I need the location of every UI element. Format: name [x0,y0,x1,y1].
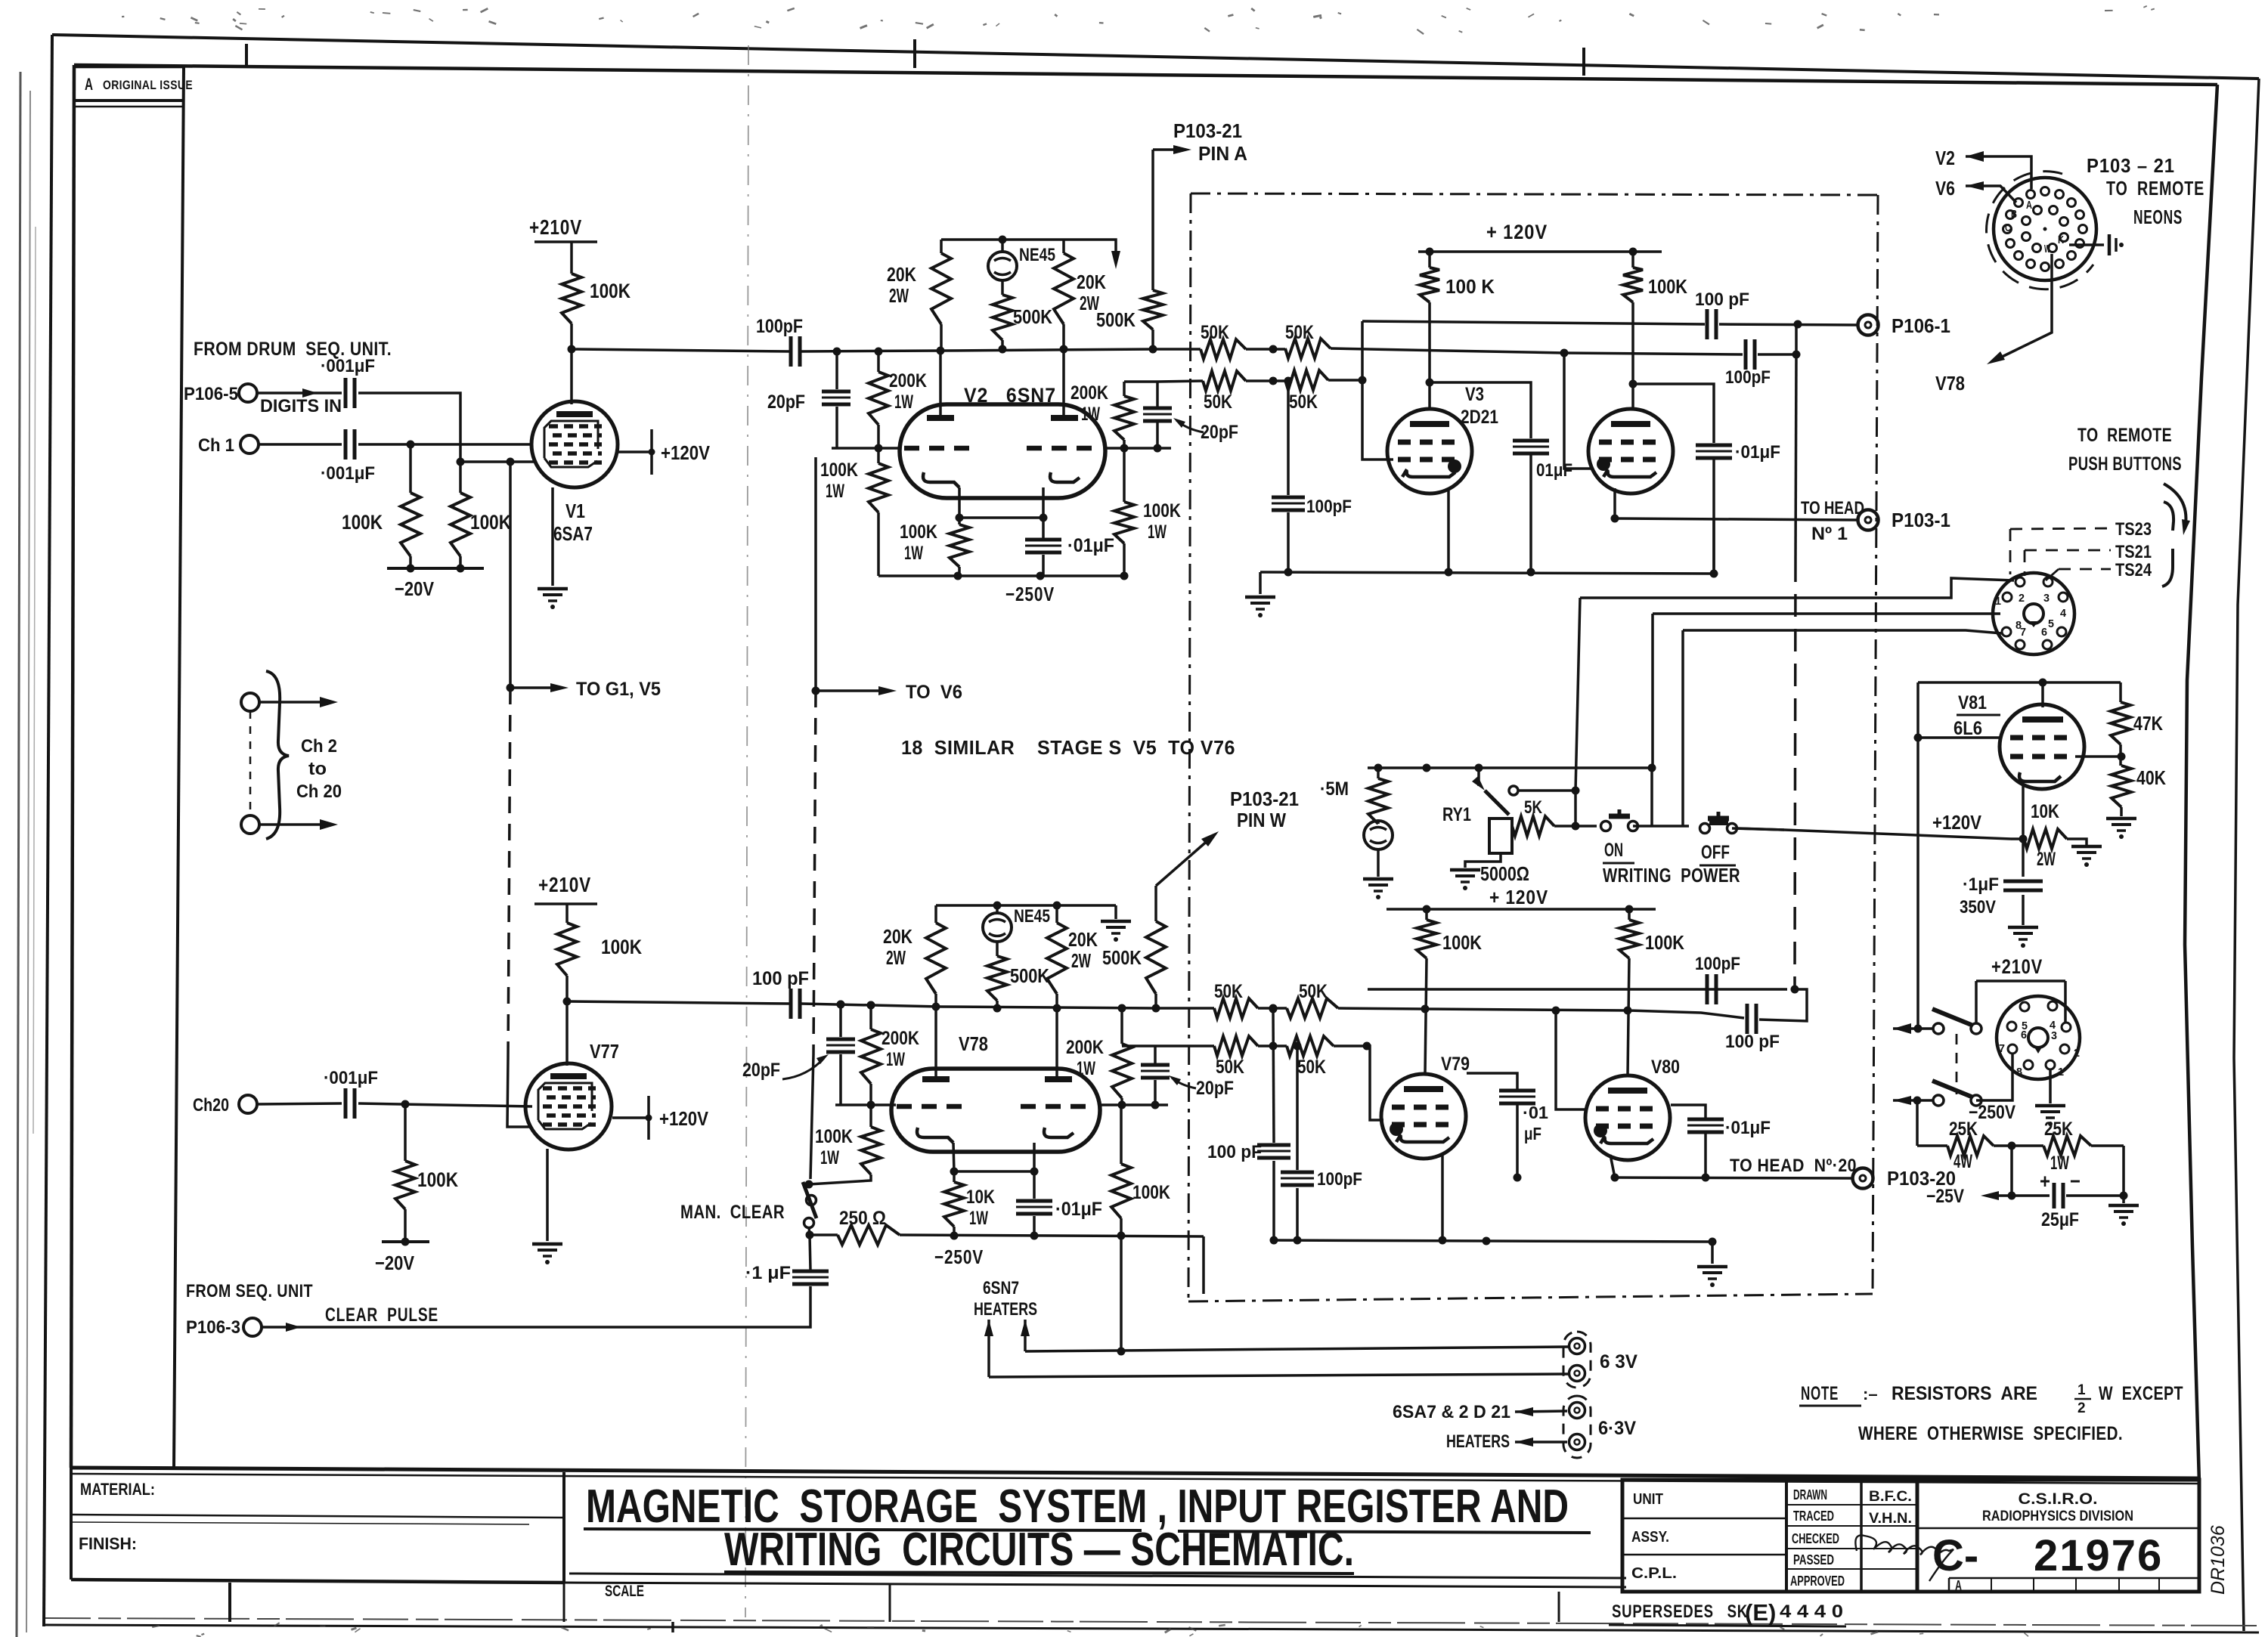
junction Ch1/R100K [407,441,415,449]
neon NE45 (V2) [999,236,1007,244]
svg-text:100K: 100K [470,511,511,534]
capacitor .001uF (Ch 1) [344,429,348,460]
svg-text:·01μF: ·01μF [1067,535,1114,556]
brace TS labels [2162,502,2173,586]
inner frame right [2185,85,2217,1483]
tube V78 6SN7 [891,1069,1100,1152]
terminal tick +120V (V1) [650,429,653,475]
tick bottom center [671,1622,674,1632]
capacitor 100pF (V79 grid a) [1269,1005,1278,1013]
svg-text:A: A [2026,199,2032,212]
wire V2 right plate [1062,349,1065,416]
svg-text:1W: 1W [1077,1058,1095,1079]
wire cap to ground rail R [1712,460,1715,572]
resistor .5M [1377,768,1380,778]
svg-text:6: 6 [2041,626,2047,639]
ground (10K) [2071,845,2102,849]
wire TS pin2 from relay contact [1580,578,2014,598]
svg-text:(E): (E) [1745,1599,1776,1626]
wire long branch down (dashed) [1795,559,1795,979]
svg-text:SCALE: SCALE [605,1583,644,1600]
ground (40K) [2120,807,2123,816]
resistor 50K lower row2 a [1214,1036,1258,1056]
V78 grid wire [835,1103,896,1106]
arrow 20pF label (V78 right) [1172,1078,1196,1088]
bus wire dashed (18 similar stages) [508,688,510,1058]
wire 10K to ground [2067,839,2087,845]
svg-text:W EXCEPT: W EXCEPT [2099,1383,2183,1404]
capacitor 20pF (V78 right) [1141,1063,1170,1067]
wire man clear to clear pulse [262,1286,810,1327]
resistor 500K (PIN W line) [1146,921,1166,994]
wire 25K1W right drop [2122,1146,2125,1196]
heater terminals 6.3V pair 1 [1569,1338,1585,1354]
V78 anode bars [922,1076,950,1082]
terminal P106-1 [1858,315,1879,336]
tube V79 2D21 [1381,1074,1466,1159]
wire -250V rail drop [1202,1236,1205,1294]
heater arrow 1 [984,1320,993,1336]
svg-text:6L6: 6L6 [1954,718,1982,739]
svg-text:TO G1, V5: TO G1, V5 [576,679,661,700]
wire NE45 rail to down-arrow [1064,240,1116,257]
svg-text:1W: 1W [894,391,913,413]
terminal tick +120V (V77) [647,1096,650,1140]
wire V3 cathode [1447,488,1450,572]
wire row2 lower left end [1122,1044,1155,1047]
dashed wire TS23 [2010,528,2111,529]
tube V80 2D21 [1585,1075,1670,1160]
tube V77 6SA7 [525,1063,612,1150]
wire digits-in cap to grid2 node [358,393,460,462]
svg-text:·01μF: ·01μF [1735,442,1780,463]
V78 internal grid dashes [897,1104,968,1109]
svg-text:V1: V1 [565,500,585,522]
svg-text:500K: 500K [1102,946,1142,969]
wire V80 plate [1628,958,1629,1075]
junction grid2/R100K [457,458,465,466]
svg-text:100K: 100K [1143,500,1181,521]
junction TO V6 [812,687,820,695]
wire rail to pin3 [2064,981,2067,1022]
resistor 20K 2W (left) [940,240,943,253]
svg-text:RESISTORS ARE: RESISTORS ARE [1892,1383,2037,1404]
arrowhead digits in [302,388,318,398]
svg-text:DIGITS IN: DIGITS IN [260,396,342,416]
svg-text:CLEAR PULSE: CLEAR PULSE [325,1304,438,1326]
junction V3b 100K [1629,248,1637,256]
capacitor .001uF (Ch20) [344,1088,348,1119]
wire row2 [1157,381,1203,382]
svg-text:25μF: 25μF [2041,1209,2079,1230]
svg-text:P103-21: P103-21 [1230,788,1299,810]
svg-text:TRACED: TRACED [1793,1509,1834,1524]
svg-text:P106-3: P106-3 [186,1317,240,1338]
arrow 20pF label (V78) [782,1058,824,1079]
svg-text:TS24: TS24 [2115,560,2152,580]
unit table frame [1622,1480,1917,1592]
resistor 40K [2112,766,2131,807]
svg-text:2: 2 [2019,592,2025,605]
svg-text:APPROVED: APPROVED [1790,1574,1845,1589]
wire pin7 to -250V switch [1981,1054,2012,1100]
svg-text:PIN A: PIN A [1198,142,1247,165]
wire V1 cathode to ground [551,487,554,586]
svg-text:OFF: OFF [1701,842,1730,863]
svg-text:4 4 4 0: 4 4 4 0 [1780,1601,1843,1622]
svg-text:·1μF: ·1μF [1963,874,1999,895]
svg-text:18 SIMILAR STAGE S V5 TO: 18 SIMILAR STAGE S V5 TO V76 [901,736,1235,759]
bus dashed V2 to V78 (left) [814,457,817,691]
bus wire solid to V77 grid [507,1058,532,1127]
svg-text:20pF: 20pF [1196,1078,1234,1099]
svg-text:2W: 2W [2037,849,2056,870]
resistor 100pF branch (V3 grid) [1284,377,1293,385]
rail -250V (V2) [958,574,1124,577]
svg-text:ASSY.: ASSY. [1631,1529,1669,1546]
relay contact arm [1477,768,1480,786]
capacitor 100pF (output 2) [1744,339,1748,370]
wire 20K left bottom [934,994,937,1007]
svg-text:100K: 100K [342,511,383,534]
svg-text:V78: V78 [959,1032,988,1055]
svg-text:RADIOPHYSICS DIVISION: RADIOPHYSICS DIVISION [1982,1509,2133,1524]
wire V81 plate [2041,682,2044,707]
svg-text:500K: 500K [1013,305,1052,328]
svg-text:NE45: NE45 [1019,245,1055,265]
capacitor 100pF (lower out 1) [1746,1004,1749,1034]
wire V79 plate [1425,958,1427,1074]
node -20V bar [409,556,412,568]
ground cap at socket [2069,243,2104,246]
svg-text:100 pF: 100 pF [1695,289,1749,310]
material box [70,1468,73,1580]
wire V3 plate cross to cap [1430,382,1531,438]
wire Ch20 to cap [257,1103,342,1104]
resistor 20K 2W (V78 left) [934,905,937,923]
arrow to P103-21 PIN A [1153,148,1181,151]
wire lower cap1 junction [1759,989,1807,1021]
wire V2 left plate [939,351,942,416]
supersedes strip [1558,1592,1560,1622]
capacitor .01uF (V78 cathode) [1033,1171,1036,1199]
ground (NE45 rail) [1114,905,1117,919]
resistor 200K 1W (V78 right) [1120,1008,1123,1044]
capacitor 100pF (V77-V78) [789,989,793,1019]
svg-text:3: 3 [2043,592,2050,605]
title underline 1b [1178,1531,1591,1533]
ground (relay coil) [1450,868,1480,872]
tube V2 6SN7 [900,404,1105,498]
wire V1 plate to +120V [618,450,652,453]
wire V78 right plate [1055,1008,1058,1076]
arrow Ch2 [259,701,327,704]
svg-text:−250V: −250V [1005,583,1055,605]
svg-text:7: 7 [1999,1042,2005,1055]
switch MAN CLEAR [805,1181,813,1189]
arrow 6SA7 heaters [1515,1407,1533,1416]
svg-text:100K: 100K [820,460,858,481]
wire pin1 to ground [2049,1069,2052,1103]
resistor 100K (V78 right lower) [1120,1105,1123,1164]
svg-text:+210V: +210V [538,873,591,896]
svg-text:B: B [2011,208,2017,221]
svg-text:·001μF: ·001μF [321,356,375,376]
svg-text:2D21: 2D21 [1461,407,1498,428]
wire TS pin1 from rail [1653,612,2000,615]
resistor 100K (V79 plate) [1425,909,1428,920]
arrow Ch20 group [259,823,327,826]
svg-text:100pF: 100pF [1317,1169,1362,1190]
wire riser ON to rail [1650,768,1653,826]
resistor 100K (Ch1 grid leak) [409,444,412,493]
checked signature [1855,1535,1954,1581]
wire V81 screen to divider [2075,755,2121,758]
resistor 10K 1W (V78 cathode) [953,1171,956,1182]
svg-text:TO REMOTE: TO REMOTE [2077,425,2172,446]
svg-text:Ch 1: Ch 1 [198,435,234,456]
wire switch to +210V rail [1975,981,1978,1024]
wire grid2 into V1 [460,460,535,463]
tick below material box [228,1583,231,1622]
inner frame left [71,65,74,1468]
svg-text:1W: 1W [904,543,923,564]
capacitor 20pF (V2 right) [1143,407,1172,410]
wire V80 cathode [1610,1155,1615,1177]
scan noise specks [787,8,795,12]
capacitor .01uF (V3 cross L) [1513,439,1549,443]
svg-text:MATERIAL:: MATERIAL: [80,1480,155,1499]
V2 internal grid dashes [904,446,975,451]
relay RY1 coil [1489,818,1512,853]
svg-text:C: C [2005,221,2011,234]
chain boundary left edge [1188,193,1191,1301]
svg-text:25K: 25K [1949,1119,1978,1140]
wire coil bottom to ground [1465,853,1501,868]
neon lamp (.5M) [1377,821,1380,824]
resistor 100K 1W (V78 left cathode) [869,1105,872,1127]
wire Ch1 cap to V1 grid [358,443,531,446]
svg-text:ON: ON [1604,840,1623,861]
junction row2 [1269,377,1278,385]
rail relay top [1368,766,1652,769]
svg-text:20pF: 20pF [767,391,805,413]
wire PIN W vertical [1154,886,1157,921]
svg-text:3: 3 [2051,1029,2057,1042]
socket TS (octal) [1993,573,2074,654]
svg-text:100 K: 100 K [1445,275,1495,298]
svg-text:21976: 21976 [2034,1531,2163,1580]
svg-text:·001μF: ·001μF [324,1068,378,1088]
svg-text:100K: 100K [1132,1182,1170,1203]
capacitor 100pF (coupling V1-V2) [789,336,793,367]
wire to R100K (V77) [565,904,569,923]
tube V3 2D21 [1387,409,1472,494]
svg-text:100K: 100K [1645,931,1684,954]
svg-text:5: 5 [2048,617,2054,630]
junction row1 [1269,345,1278,354]
wire V3b plate cross to cap [1633,384,1714,443]
capacitor .1uF (man clear) [810,1235,810,1270]
ground (V77 cathode) [532,1242,562,1246]
svg-text:NE45: NE45 [1014,906,1050,927]
svg-text:P103-21: P103-21 [1173,119,1242,142]
wire R100K to junction [565,976,569,1001]
capacitor 20pF (V2 grid) [835,351,838,389]
resistor 100K (V77 plate) [557,923,577,976]
svg-text:100 pF: 100 pF [752,968,809,989]
capacitor .01uF (V2 cathode) [1042,518,1045,538]
svg-text:TO REMOTE: TO REMOTE [2106,177,2204,200]
scan edge marks left [17,72,20,1637]
NE45 rail (V78) [936,904,1116,907]
svg-text:100K: 100K [1442,931,1482,954]
svg-text:B.F.C.: B.F.C. [1869,1489,1912,1505]
socket keyway (+210V) [2028,1028,2048,1047]
svg-text:−250V: −250V [934,1246,984,1268]
svg-text:FINISH:: FINISH: [79,1534,137,1553]
resistor 200K 1W (V2 right plate-grid) [1123,382,1126,396]
wire row1 to V3b [1331,348,1564,353]
tick mark top border x2095 [1582,48,1585,76]
NE45 rail [941,238,1064,241]
title underline 1a [584,1529,1142,1530]
wire V3b cathode to head [1613,488,1616,518]
svg-text:V6: V6 [1935,177,1955,200]
svg-text:20K: 20K [883,925,912,948]
svg-text:20pF: 20pF [742,1060,780,1081]
svg-text:100K: 100K [815,1126,853,1147]
V78 grid wire right [1098,1103,1168,1106]
svg-text:01μF: 01μF [1536,460,1572,481]
wire R100K to main wire [570,323,573,349]
svg-text:+210V: +210V [529,215,582,239]
wire +210V to R 100K [570,242,573,274]
svg-text:DR1036: DR1036 [2208,1525,2229,1595]
svg-text:RY1: RY1 [1442,804,1471,825]
tube V81 6L6 [2000,704,2084,789]
main wire after cap (lower) [801,1004,941,1007]
svg-text:500K: 500K [1010,964,1049,987]
capacitor .01uF (V80 right) [1687,1118,1724,1122]
dashed wire TS21 [2025,549,2111,552]
arrow 20pF label [1176,420,1204,432]
wire +120V row [1737,828,1784,830]
tick mark top border x326 [245,44,248,67]
svg-text:6: 6 [2021,1029,2027,1041]
wire V79 cathode [1441,1154,1444,1240]
resistor 500K (below NE45 V78) [996,942,999,956]
wire TS pin8 from OFF branch [1683,630,2002,633]
capacitor .01uF (V79-V80) [1499,1089,1535,1093]
svg-text:MAN. CLEAR: MAN. CLEAR [680,1202,785,1223]
csiro box [1917,1480,2199,1592]
terminal P103-1 [1858,510,1879,531]
V2 cathode rail [958,487,961,518]
wire V81 branch to switch [1914,1025,1923,1033]
material divider [71,1515,564,1518]
wire lower out row2 [1368,988,1787,991]
svg-text:WHERE OTHERWISE SPECIFIED.: WHERE OTHERWISE SPECIFIED. [1858,1423,2123,1444]
svg-text:V80: V80 [1651,1057,1680,1078]
svg-text:V78: V78 [1935,372,1965,395]
fold crease line [745,45,748,1617]
resistor 50K row1 b [1285,339,1331,358]
svg-text:47K: 47K [2133,712,2163,735]
svg-text:2W: 2W [889,284,909,307]
junction 200K branch [875,348,883,356]
resistor 100K (V3b plate) [1631,252,1634,268]
svg-text:100pF: 100pF [756,316,803,337]
outer border right [2234,79,2259,1631]
heater terminals 6.3V pair 2 [1569,1403,1585,1419]
wire row1 to output cap 2 [1564,353,1743,354]
chain boundary top edge [1191,193,1878,195]
svg-text:50K: 50K [1204,391,1232,413]
tube V3b 2D21 [1588,409,1673,494]
svg-text:50K: 50K [1216,1057,1244,1078]
svg-text:DRAWN: DRAWN [1793,1487,1827,1502]
svg-text:500K: 500K [1096,308,1136,331]
arrow TO V6 [816,689,888,692]
wire switch down to 25K [1916,1100,1919,1146]
rail V81 top [1918,681,2121,684]
V78 cathode rail [954,1170,1034,1173]
capacitor .001uF (digits in) [344,378,348,408]
svg-text:8: 8 [2016,1066,2022,1078]
junction 20pF branch (V78) [837,1001,845,1009]
svg-text:UNIT: UNIT [1633,1491,1663,1508]
ground rail (V79/V80) [1274,1240,1712,1242]
svg-text:·001μF: ·001μF [321,463,375,484]
svg-text:+120V: +120V [661,441,711,464]
svg-text:100K: 100K [900,521,937,543]
arrow TO G1,V5 [510,686,559,689]
arrow to V78 from pin W [1996,254,2052,360]
node -20V (V77) [404,1209,407,1242]
svg-text:V81: V81 [1958,692,1987,713]
svg-text:350V: 350V [1960,897,1996,918]
svg-text:100 pF: 100 pF [1725,1032,1780,1052]
svg-text:200K: 200K [1070,382,1108,404]
svg-text:C-: C- [1932,1531,1978,1580]
svg-text:NOTE: NOTE [1801,1383,1839,1404]
wire V3 plate [1428,302,1431,408]
wire -250V rail (V78) [900,1235,1204,1236]
capacitor 100pF (output 1) [1706,309,1709,339]
capacitor 1uF 350V [2022,839,2025,877]
svg-text:1W: 1W [886,1049,905,1070]
resistor 20K 2W (V78 right) [1055,905,1058,923]
socket octal (+210V) [1997,996,2080,1079]
wire V81 grid [1918,736,2001,739]
svg-text:PUSH BUTTONS: PUSH BUTTONS [2068,453,2182,475]
drawn col rows [1786,1504,1917,1505]
svg-text:2W: 2W [1071,949,1091,972]
svg-text:WRITING POWER: WRITING POWER [1603,864,1740,887]
svg-text:P106-1: P106-1 [1892,314,1950,337]
wire 100K1W-left to -250V rail [877,512,880,576]
svg-text:·01: ·01 [1523,1103,1548,1122]
terminal P106-3 [243,1318,262,1336]
heater wire 1 [1025,1347,1568,1351]
wire TO HEAD No1 [1615,518,1857,520]
dashed gang link [1956,1034,1958,1094]
svg-text:2W: 2W [886,946,906,969]
svg-text:1W: 1W [1148,521,1167,543]
svg-text:+ 120V: + 120V [1486,221,1548,243]
svg-text:NEONS: NEONS [2133,206,2183,228]
